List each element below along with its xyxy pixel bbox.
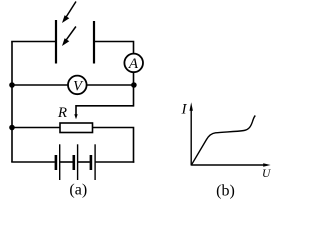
light arrow 1 (62, 2, 76, 24)
resistor R body (60, 123, 93, 133)
battery cell 3 long plate (94, 144, 96, 180)
graph I axis arrowhead (190, 102, 193, 111)
svg-text:(b): (b) (216, 183, 235, 200)
wire ammeter to junction and down (133, 72, 135, 106)
ammeter A1 (124, 54, 143, 73)
wire voltmeter branch left (12, 84, 68, 86)
graph U axis (191, 164, 264, 166)
wire battery bottom right (95, 161, 134, 163)
wire photocell right plate to right rail (95, 42, 134, 55)
svg-text:(a): (a) (69, 182, 87, 199)
wire battery bottom left (11, 161, 55, 163)
photocell right plate (93, 21, 95, 64)
wire resistor left (12, 127, 60, 129)
battery cell 3 short plate (90, 155, 93, 170)
photocell left plate (55, 20, 57, 64)
battery cell 2 short plate (73, 155, 76, 170)
svg-text:R: R (57, 105, 67, 121)
wire top to photocell left plate (11, 41, 55, 43)
svg-text:U: U (262, 168, 271, 180)
svg-text:I: I (181, 101, 188, 117)
wire left rail (11, 42, 13, 163)
wire resistor right to rail down (93, 128, 134, 163)
wire between cells 1-2 (60, 161, 73, 163)
wire voltmeter branch right (87, 84, 134, 86)
light arrow 2 (62, 27, 76, 47)
node junction right (131, 82, 137, 88)
battery cell 2 long plate (77, 144, 79, 180)
graph U axis arrowhead (263, 163, 270, 167)
graph I axis (190, 109, 192, 166)
voltmeter V1 (68, 76, 87, 95)
slider arrow head (74, 114, 77, 119)
wire between cells 2-3 (78, 161, 90, 163)
battery cell 1 long plate (59, 144, 61, 180)
node junction left (9, 82, 15, 88)
graph curve (192, 116, 256, 165)
wire slider branch (76, 106, 134, 115)
svg-text:A: A (128, 56, 139, 72)
battery cell 1 short plate (55, 155, 58, 170)
node junction resistor left (9, 125, 15, 131)
